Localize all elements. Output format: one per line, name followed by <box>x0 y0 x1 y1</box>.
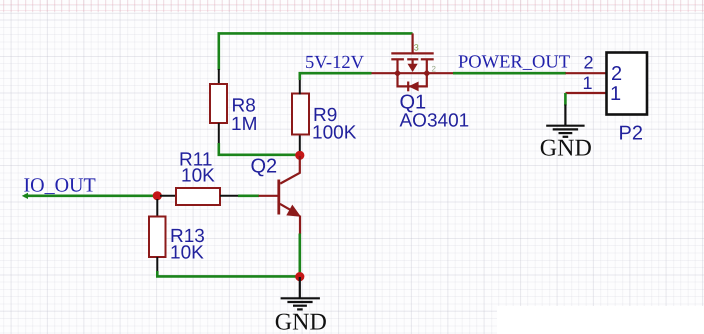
svg-text:2: 2 <box>611 63 622 85</box>
svg-text:P2: P2 <box>619 123 643 145</box>
pin R8 pin1 (top) <box>218 69 220 85</box>
svg-text:Q2: Q2 <box>251 155 278 177</box>
svg-text:2: 2 <box>432 65 437 74</box>
svg-text:GND: GND <box>540 135 592 161</box>
pin P2 pin2 <box>566 72 607 74</box>
junction node (IO_OUT/R11/R13) <box>153 191 162 200</box>
resistor R9 <box>292 94 309 135</box>
pin R9 pin2 (bottom) <box>299 135 301 152</box>
junction node (emitter/R13/GND) <box>295 272 304 281</box>
svg-text:10K: 10K <box>181 166 215 187</box>
wire end arrow <box>22 193 28 199</box>
connector P2 <box>607 53 648 115</box>
pin R9 pin1 (top) <box>299 79 301 95</box>
svg-text:GND: GND <box>275 310 327 334</box>
wire net 5V-12V <box>300 73 372 80</box>
svg-text:IO_OUT: IO_OUT <box>24 174 96 196</box>
resistor R13 <box>149 217 166 258</box>
ground GND (at Q2) <box>281 277 320 309</box>
pin R8 pin2 (bottom) <box>218 123 220 144</box>
svg-text:100K: 100K <box>312 123 357 144</box>
svg-text:1: 1 <box>583 73 593 93</box>
pin R11 pin1 (left) <box>160 195 177 197</box>
svg-text:2: 2 <box>584 53 594 73</box>
wire Q2 emitter to GND node <box>298 234 301 278</box>
resistor R8 <box>210 84 227 123</box>
svg-text:AO3401: AO3401 <box>400 110 470 131</box>
wire net POWER_OUT <box>453 72 566 75</box>
svg-text:5V-12V: 5V-12V <box>305 53 365 73</box>
svg-text:POWER_OUT: POWER_OUT <box>458 52 570 72</box>
wire R13 bottom to GND node <box>157 271 299 276</box>
svg-text:1M: 1M <box>231 114 257 135</box>
transistor Q2 (NPN) <box>259 156 301 234</box>
svg-text:10K: 10K <box>170 243 204 264</box>
ground GND (at P2) <box>546 105 584 137</box>
resistor R11 <box>176 188 220 205</box>
wire net IO_OUT <box>24 195 157 198</box>
pin P2 pin1 <box>566 92 607 94</box>
wire R11 to Q2 base <box>238 195 259 198</box>
wire R8 bottom to node <box>219 143 300 155</box>
transistor Q1 (PMOS) <box>372 33 454 91</box>
wire P2 pin1 to GND <box>564 93 567 106</box>
pin R13 pin2 (bottom) <box>156 257 158 272</box>
junction node (R8/R9/Q2 collector) <box>295 151 304 160</box>
pin R11 pin2 (right) <box>220 195 239 197</box>
pin R13 pin1 (top) <box>156 199 158 217</box>
svg-text:1: 1 <box>610 83 621 105</box>
svg-text:3: 3 <box>414 43 419 53</box>
wire net gate: R8 top to Q1 gate <box>219 33 413 70</box>
